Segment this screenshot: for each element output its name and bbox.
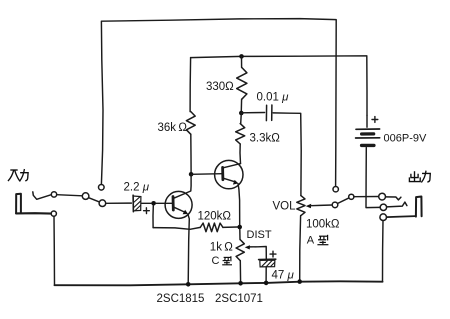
svg-text:0.01 μ: 0.01 μ <box>257 92 290 104</box>
input jack J1 <box>16 194 21 214</box>
wire 0.01u left lead <box>241 112 264 114</box>
contact circle G1 (output tip) <box>379 193 386 200</box>
wire 330R top lead <box>241 56 243 67</box>
wire Q2 base lead <box>191 173 222 176</box>
contact circle C (to coupling cap) <box>99 200 106 207</box>
contact circle F <box>349 194 354 199</box>
potentiometer DIST 1kΩ element <box>236 240 244 261</box>
wire feedback down from base node <box>152 206 154 228</box>
svg-text:C: C <box>212 255 220 267</box>
transistor Q1 2SC1815 body <box>165 191 192 218</box>
contact circle G3 (output sleeve) <box>380 214 387 221</box>
wire 3.3k bottom to Q2 collector <box>239 144 242 164</box>
svg-text:2.2 μ: 2.2 μ <box>124 182 150 194</box>
wire Q2 emitter node to DIST pot <box>239 229 241 240</box>
node junction Q2 emitter / 120k / DIST pot <box>237 225 242 230</box>
wire 2.2u to Q1 base node <box>142 202 151 204</box>
input tip spring contact <box>33 192 52 199</box>
polarity + of 2.2μ <box>144 210 150 212</box>
wire top bypass rail (input jack contact to output jack contact) <box>101 19 336 187</box>
DIST wiper arrow <box>245 245 250 249</box>
resistor R 36kΩ <box>186 112 195 135</box>
capacitor C 47μ (electrolytic, hatched box) <box>259 259 276 267</box>
capacitor C 0.01μ plates <box>265 105 267 120</box>
svg-text:47 μ: 47 μ <box>272 270 295 282</box>
wire G3 down to ground rail <box>382 221 385 282</box>
wire 36k top lead <box>189 58 192 112</box>
wire F to G1 <box>354 196 379 198</box>
svg-text:120kΩ: 120kΩ <box>198 211 232 223</box>
battery B 006P-9V plates <box>356 129 380 145</box>
transistor Q2 2SC1071 body <box>215 160 243 188</box>
svg-text:2SC1071: 2SC1071 <box>215 293 263 305</box>
Q2 collector lead <box>224 164 241 168</box>
contact circle B (switch) <box>82 193 89 200</box>
contact circle D2 (bypass rail end, output) <box>333 187 338 192</box>
output ring spring contact <box>387 202 407 207</box>
contact circle D (bypass rail end) <box>99 185 105 191</box>
node junction Q1 base / feedback <box>151 201 156 206</box>
contact circle A (input tip) <box>51 192 56 197</box>
svg-text:006P-9V: 006P-9V <box>384 133 427 145</box>
switch blade B to C <box>89 198 100 202</box>
polarity + of 47μ <box>270 253 276 255</box>
wire battery+ rail <box>191 56 367 116</box>
wire 0.01u right lead to VOL top <box>273 113 301 196</box>
node junction VOL bottom on rail <box>297 279 302 284</box>
contact circle G2 (output ring / battery) <box>380 204 386 210</box>
svg-text:3.3kΩ: 3.3kΩ <box>250 133 281 145</box>
wire 3.3k top lead <box>240 113 243 124</box>
wire A to B <box>57 195 82 196</box>
node junction 47u on rail <box>264 281 269 286</box>
contact circle E (input sleeve) <box>51 211 56 216</box>
output tip spring contact <box>386 197 401 200</box>
Q1 collector lead <box>174 175 191 199</box>
wire DIST pot bottom to rail <box>239 261 241 284</box>
wire E down to ground rail <box>53 216 56 284</box>
svg-text:A: A <box>307 235 315 247</box>
wire battery negative to output jack ring contact <box>366 148 380 208</box>
resistor R 120kΩ <box>200 223 223 232</box>
wire VOL bottom to rail <box>299 216 302 280</box>
output jack J2 <box>416 197 422 217</box>
wire 330R bottom lead <box>240 99 242 111</box>
capacitor C 2.2μ (electrolytic, hatched box) <box>133 195 141 212</box>
Q1 emitter lead <box>174 207 184 212</box>
svg-text:VOL: VOL <box>273 201 297 213</box>
svg-text:DIST: DIST <box>247 229 272 241</box>
node junction DIST bottom on rail <box>238 281 243 286</box>
switch blade E2 to F <box>338 198 349 204</box>
resistor R 330Ω <box>237 68 247 100</box>
wire battery top lead <box>366 115 368 127</box>
wire feedback horizontal <box>153 227 200 229</box>
svg-text:1k Ω: 1k Ω <box>210 242 233 254</box>
label 出力 (output) <box>409 171 430 182</box>
contact circle E2 (VOL wiper) <box>332 202 338 208</box>
potentiometer VOL 100kΩ element <box>297 196 305 216</box>
label 入力 (input) <box>8 170 28 181</box>
VOL wiper arrow <box>306 204 312 209</box>
Q2 emitter lead <box>224 178 234 181</box>
svg-text:100kΩ: 100kΩ <box>306 219 340 231</box>
node junction 330R/3.3k/0.01u <box>239 111 244 116</box>
svg-text:330Ω: 330Ω <box>206 81 234 93</box>
polarity + of battery <box>372 119 378 121</box>
wire node to Q1 base <box>156 202 174 204</box>
node junction 330R top <box>239 54 244 59</box>
Q1 base bar <box>172 197 175 211</box>
wire C to 2.2u cap <box>106 202 132 204</box>
node junction Q1 emitter on rail <box>186 282 191 287</box>
wire ground rail (bottom) <box>55 281 383 285</box>
wire input jack sleeve to E <box>16 212 51 215</box>
wire 36k bottom to Q1 collector node <box>190 134 192 172</box>
Q2 base bar <box>221 167 224 179</box>
resistor R 3.3kΩ <box>236 124 245 144</box>
wire 120k to Q2 emitter node <box>223 226 238 228</box>
svg-text:36k Ω: 36k Ω <box>158 122 188 134</box>
wire 47u bottom to rail <box>265 267 267 281</box>
node junction Q1 collector / 36k / Q2 base <box>189 172 194 177</box>
wire G3 to output jack sleeve <box>387 216 416 217</box>
svg-text:2SC1815: 2SC1815 <box>157 293 205 305</box>
